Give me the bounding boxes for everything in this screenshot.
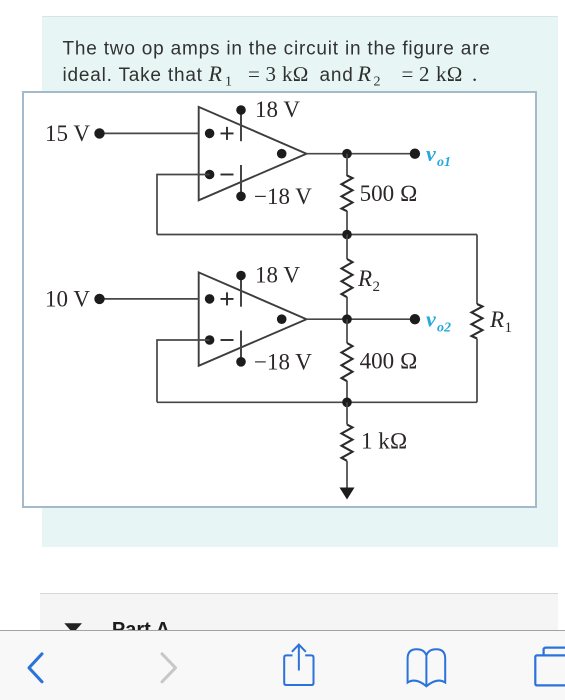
toolbar share icon: [284, 655, 313, 685]
wire 15V source to U1 + input: [100, 132, 199, 134]
wire node D to resistor 1k: [346, 402, 348, 424]
junction dot node B: [342, 230, 352, 240]
wire U1 feedback (inverting input to node B): [157, 175, 210, 235]
op-amp U1 negative supply pin: [240, 165, 242, 196]
op-amp U1 output pin dot: [277, 149, 287, 159]
terminal dot vo2: [410, 314, 420, 324]
op-amp U1 inverting input pin dot: [205, 170, 215, 180]
op-amp U2 plus input marker: [221, 292, 234, 305]
wire U2 feedback (inverting input to node D): [157, 340, 210, 402]
wire resistor 500 to node B: [346, 211, 348, 235]
resistor R1 zigzag: [472, 304, 483, 338]
op-amp U1 positive supply pin: [240, 110, 242, 141]
op-amp U1 noninverting input pin dot: [205, 129, 215, 139]
mint problem panel: [42, 16, 558, 547]
terminal dot vo1: [410, 149, 420, 159]
op-amp U2 output pin dot: [277, 314, 287, 324]
op-amp U2 positive supply pin: [240, 276, 242, 307]
browser toolbar: [0, 630, 565, 700]
op-amp U1 triangle: [199, 107, 307, 200]
wire resistor R2 to node C: [346, 297, 348, 319]
wire node B to resistor R1: [476, 235, 478, 305]
op-amp U1 minus input marker: [221, 174, 234, 176]
wire resistor R1 to node D: [476, 339, 478, 403]
toolbar bookmarks icon: [408, 649, 446, 686]
wire resistor 1k to ground arrow: [346, 461, 348, 489]
wire resistor 400 to node D: [346, 381, 348, 402]
wire U2 output to vo2 terminal: [307, 318, 415, 320]
op-amp U2 triangle: [199, 272, 307, 365]
wire node D horizontal rail: [157, 401, 477, 403]
op-amp U1 plus input marker: [221, 127, 234, 140]
op-amp U2 minus input marker: [221, 339, 234, 341]
wire node B to resistor R2: [346, 235, 348, 260]
toolbar forward chevron (disabled): [162, 654, 176, 682]
wire U1 output to vo1 terminal: [307, 153, 415, 155]
problem statement text: [0, 0, 565, 100]
wire node C to resistor 400: [346, 319, 348, 343]
wire node B horizontal rail: [157, 234, 477, 236]
terminal dot 10 V: [94, 294, 104, 304]
op-amp U2 negative supply pin: [240, 331, 242, 362]
Part A header panel: [40, 593, 558, 631]
junction dot node C (U2 output): [342, 314, 352, 324]
wire 10V source to U2 + input: [100, 298, 199, 300]
wire node A to resistor 500: [346, 154, 348, 176]
toolbar tabs icon: [535, 655, 565, 685]
ground reference arrow: [340, 488, 355, 500]
figure box: [22, 91, 537, 508]
resistor R2 zigzag: [342, 259, 353, 297]
resistor 500 ohm zigzag: [342, 176, 353, 212]
terminal dot 15 V: [94, 128, 104, 138]
op-amp U2 inverting input pin dot: [205, 335, 215, 345]
collapse triangle: [64, 623, 82, 633]
resistor 1 kohm zigzag: [342, 425, 353, 461]
junction dot node A (U1 output): [342, 149, 352, 159]
resistor 400 ohm zigzag: [342, 343, 353, 381]
junction dot node D: [342, 398, 352, 408]
op-amp U2 noninverting input pin dot: [205, 294, 215, 304]
toolbar back chevron: [29, 654, 42, 682]
